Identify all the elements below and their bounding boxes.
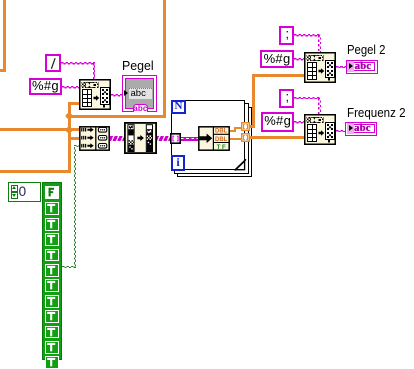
wire: string dashed from slash constant [61, 62, 95, 65]
boolean array constant shell [42, 182, 62, 360]
constant: %#g (Pegel) [29, 78, 62, 95]
wire: into node U1 bottom input [68, 102, 80, 105]
label: Frequenz 2 [347, 106, 406, 119]
Pegel pointer triangle [124, 90, 128, 96]
loop count terminal N [171, 100, 185, 114]
wire: orange vertical right of Pegel indicator [163, 0, 166, 118]
wire: horizontal from left edge through dot2 into U4 row1 [0, 128, 80, 131]
index spinner [11, 185, 18, 192]
constant: semicolon (Frequenz 2) [279, 89, 294, 108]
constant: %#g (Frequenz 2) [261, 112, 294, 132]
svg-text:T F: T F [216, 145, 225, 151]
page curl corner [233, 158, 247, 172]
wire: branch into U4 row2 [68, 137, 80, 140]
node U4: converter with three rows [79, 126, 110, 151]
wire: string dashed from %#g 1 [62, 86, 80, 89]
boolean array constant: index box [8, 182, 41, 201]
shared pattern defs [0, 0, 1, 1]
node junction dot1 [65, 112, 74, 121]
for loop frame [171, 100, 245, 170]
indicator: Frequenz 2 abc [345, 122, 377, 136]
wire: green from array constant [62, 266, 76, 269]
constant: slash string [45, 54, 62, 73]
wire: string output U2 to Pegel 2 [336, 66, 346, 69]
tunnel T2 (DBL auto-indexed) [241, 133, 250, 142]
wire: green into U4 row3 [74, 145, 80, 148]
wire: orange from T1 up to U2 [249, 125, 255, 128]
label: Pegel 2 [347, 43, 385, 56]
loop layer 2 [174, 103, 248, 173]
wire: green boolean array vertical [74, 147, 77, 268]
wire: long horizontal from node A to vertical [68, 115, 166, 118]
wire: orange DBL2 to tunnel T2 [229, 138, 241, 140]
wire: string dashed from semicolon 3 [294, 97, 321, 100]
wire: bottom horizontal exit left [0, 170, 71, 173]
indicator: Pegel 2 abc [346, 60, 378, 74]
Pegel abc tab [133, 104, 148, 112]
wire: string dashed from semicolon 2 [294, 34, 320, 37]
subVI U6 inside loop [198, 126, 230, 151]
wire: string scalar inside loop [181, 137, 199, 141]
index value 0 [19, 185, 27, 199]
indicator: Pegel string indicator [122, 75, 158, 113]
node U5: Reverse 1D Array [124, 122, 157, 154]
constant: %#g (Pegel 2) [260, 50, 294, 68]
node U2: Array To Spreadsheet String (Pegel 2) [304, 52, 336, 83]
wire: string dashed from %#g 3 [294, 121, 304, 124]
tunnel left (string array) [170, 133, 181, 144]
label: Pegel [122, 59, 154, 72]
wire: orange corner top-left [3, 0, 6, 72]
constant: semicolon (Pegel 2) [279, 26, 294, 45]
svg-text:DBL: DBL [215, 137, 228, 143]
elements T [45, 202, 58, 215]
wire: string output U1 to Pegel [111, 94, 122, 97]
wire: orange trunk vertical [68, 102, 71, 174]
node junction dot2 [65, 125, 74, 134]
node U1: Array To Spreadsheet String (Pegel) [79, 79, 111, 110]
loop layer 3 [177, 107, 251, 177]
wire: orange from T2 to U3 [249, 136, 304, 139]
wire: string output U3 to Frequenz 2 [336, 130, 346, 133]
wire: string array U4 to U5 [110, 136, 124, 141]
tunnel T1 (DBL auto-indexed) [241, 122, 250, 131]
Pegel text field [129, 88, 152, 99]
wire: string array U5 to loop tunnel [156, 136, 171, 141]
node U3: Array To Spreadsheet String (Frequenz 2) [304, 114, 336, 145]
wire: orange DBL1 to tunnel T1 [229, 130, 235, 132]
element F [45, 186, 58, 199]
loop iteration terminal i [171, 155, 185, 170]
svg-text:DBL: DBL [215, 129, 228, 135]
wire squiggle into Pegel 2 [340, 66, 346, 69]
wire: string dashed from %#g 2 [294, 58, 304, 61]
